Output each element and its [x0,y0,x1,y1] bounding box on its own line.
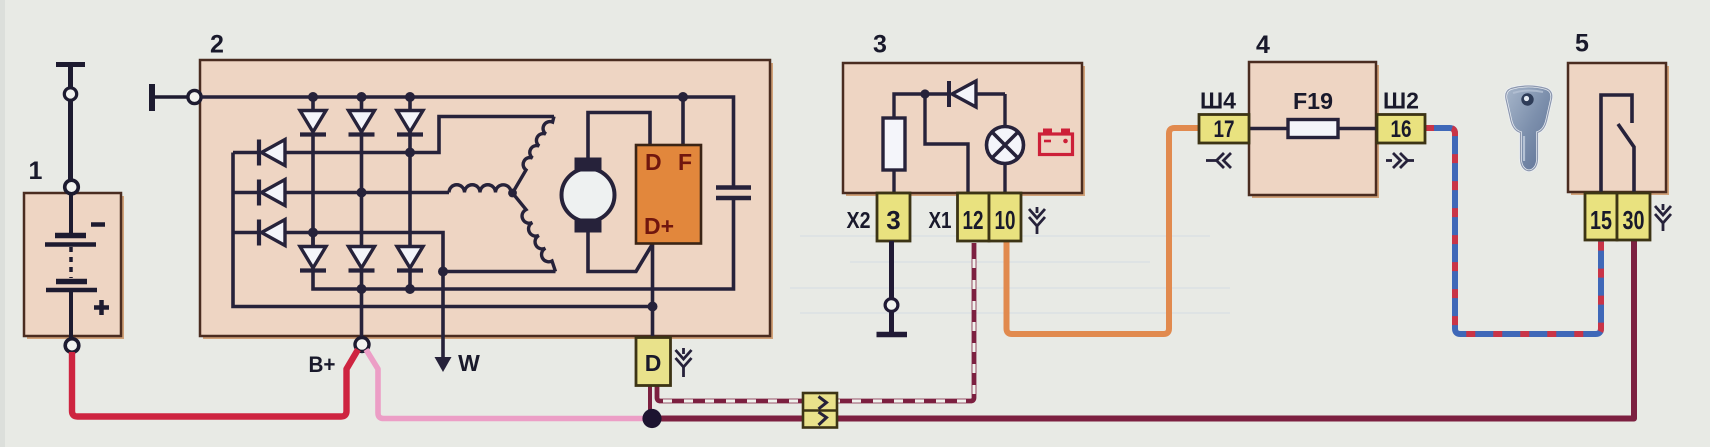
box 4 (fuse box) [1249,62,1379,198]
svg-text:F: F [678,149,692,175]
wire (pin 3 to ground) [889,241,894,299]
lamp HL (charge warning) [987,127,1024,164]
wire (F pin) [681,97,685,145]
node (open, on ground wire) [885,299,898,312]
wire (dashed maroon D to pin 12) [657,243,974,401]
wire (D+ down to D terminal) [651,243,655,338]
diode VD1 (top row col1) [300,111,326,135]
svg-text:D: D [645,350,662,376]
box 2 (alternator) [200,60,773,339]
pin 10 (X1 connector) [989,193,1021,241]
node dots on buses [308,92,688,312]
diode VD (cluster) [949,81,1005,107]
node (resistor/diode junction) [920,89,929,98]
wire (lamp to pin 10) [1003,164,1006,194]
wire (blue/red pin16 to pin15) [1425,128,1601,334]
svg-text:16: 16 [1391,116,1412,143]
wire (orange pin10 to pin17) [1007,128,1200,334]
fuse F19 [1288,120,1338,138]
wire (lower winding link) [443,270,556,274]
diode VD6 (bottom row col3) [397,247,423,271]
pin 15 [1585,193,1617,240]
ground symbol (fork at pin 30) [1655,204,1671,231]
svg-text:4: 4 [1256,31,1270,59]
wire (bottom brush to regulator D+) [588,232,653,272]
aux diode VD9 [233,220,285,246]
ground (alternator case) [152,84,188,111]
node (battery bottom terminal) [65,339,79,353]
pin 12 (X1 connector) [958,193,990,241]
diode VD2 (top row col2) [349,111,375,135]
diode VD3 (top row col3) [397,111,423,135]
terminal D (yellow box) [636,338,671,386]
ground symbol (fork at D) [676,348,692,377]
svg-text:3: 3 [873,31,887,59]
node B+ terminal [355,338,369,352]
pin 16 (Ш2) [1377,115,1425,144]
svg-text:3: 3 [886,205,900,235]
ground (below pin 3) [877,312,908,335]
stator winding L2 (upper) [513,117,555,194]
svg-text:10: 10 [995,205,1016,235]
wire (maroon junction to pin 30) [652,240,1634,419]
stator winding L3 (lower) [513,193,556,272]
rotor G1 (field winding with brushes) [562,158,615,233]
wire (red battery positive) [72,350,358,417]
op-amp regulator U1 [636,145,701,244]
wire (top brush to regulator D) [588,113,650,159]
svg-text:W: W [458,350,480,376]
node (star point) [508,189,517,198]
node (battery box top) [65,180,79,194]
wire (D terminal to junction) [648,385,652,412]
diode VD5 (bottom row col2) [349,247,375,271]
svg-text:1: 1 [29,157,43,185]
svg-text:X1: X1 [929,207,952,233]
ground (top of battery) [56,65,85,89]
terminal W (arrow) [435,336,452,372]
battery cells [45,194,97,339]
wire (phase column 3) [408,97,412,246]
capacitor C1 [716,188,751,199]
box 5 (ignition switch) [1568,63,1669,195]
pin 30 [1617,193,1650,240]
svg-text:30: 30 [1623,205,1645,235]
wire (B+ drop) [360,289,364,338]
wire (diode to lamp) [1003,94,1006,127]
wire (column 2 bottom diode to bus) [360,270,364,289]
svg-text:Ш2: Ш2 [1383,88,1419,114]
pin 17 (Ш4) [1199,115,1249,144]
wire (lower bus to capacitor) [313,134,734,289]
plus label [94,300,109,315]
wire (phase column 2) [360,97,364,246]
aux diode VD7 [233,140,285,166]
svg-text:X2: X2 [847,207,871,233]
diode VD4 (bottom row col1) [300,233,326,271]
svg-text:D+: D+ [644,213,674,239]
svg-text:5: 5 [1575,30,1589,58]
svg-text:17: 17 [1214,116,1235,143]
node (junction B+/D wires) [642,409,661,428]
svg-text:D: D [645,149,662,175]
ghost scan lines [790,236,1230,313]
arrow symbol (right, under pin 16) [1386,153,1414,168]
stator winding L1 (left) [449,185,513,193]
node (battery top terminal) [64,88,76,100]
box 1 (battery) [24,193,124,339]
key icon [1506,86,1552,171]
node (case terminal on box edge) [188,90,201,103]
svg-text:12: 12 [963,205,984,235]
svg-text:2: 2 [210,31,224,59]
wire (phase 1 row to W tap) [285,233,443,337]
wire (node down to pin 12) [925,94,968,193]
wire (aux diode cathode bus to D+) [233,153,653,307]
connector X (in-line, chevrons) [803,393,837,428]
wire (through fuse) [1249,127,1377,130]
wire (top bus) [201,97,734,186]
wire (column 3 bottom diode to bus) [408,270,412,289]
svg-text:B+: B+ [309,352,336,377]
svg-text:Ш4: Ш4 [1200,88,1236,114]
pin 3 (X2 connector) [877,193,910,241]
wire (ground to battery) [68,101,73,181]
resistor R [883,118,905,170]
box 3 (instrument cluster) [843,63,1085,196]
svg-text:15: 15 [1590,205,1612,235]
battery icon (red) [1040,129,1073,155]
arrow symbol (left, under pin 17) [1206,153,1231,168]
minus label [91,222,105,227]
wire (resistor bottom to pin 3) [892,170,895,193]
wire (pink B+ to junction) [366,350,650,419]
wire (resistor top to node) [894,94,947,118]
wire (phase 3 row to upper winding) [285,117,554,153]
svg-text:F19: F19 [1293,88,1333,114]
wire (column 1 top) [311,97,315,110]
switch contacts [1601,95,1634,192]
wire (phase 2 row to left winding) [285,191,449,195]
aux diode VD8 [233,180,285,206]
ground symbol (fork at pin 10) [1029,207,1045,234]
